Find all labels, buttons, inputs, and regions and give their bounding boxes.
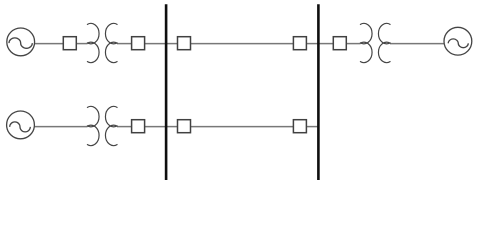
transformer T1 [87, 23, 118, 62]
wire CB4 to busbar B2 [306, 43, 318, 45]
wire T2 to generator G2 [390, 43, 444, 45]
wire CB2 to busbar B1 [144, 43, 166, 45]
breaker CB8 [293, 120, 306, 133]
wire line CB7 to CB8 [190, 126, 294, 128]
generator G3 [7, 111, 35, 139]
wire busbar B1 to breaker CB3 [166, 43, 178, 45]
wire G1 to breaker CB1 [35, 43, 64, 45]
generator G1 [7, 28, 35, 56]
breaker CB4 [293, 37, 306, 50]
generator G2 [444, 27, 472, 55]
wire G3 to transformer T3 [34, 126, 87, 128]
wire busbar B2 to breaker CB5 [318, 43, 333, 45]
wire CB8 to busbar B2 [306, 126, 318, 128]
transformer T2 [360, 23, 391, 62]
wire CB5 to transformer T2 [346, 43, 361, 45]
busbar B1 [165, 4, 168, 180]
breaker CB1 [63, 37, 76, 50]
breaker CB3 [178, 37, 191, 50]
wire line CB3 to CB4 [190, 43, 294, 45]
transformer T3 [87, 106, 118, 145]
wire CB6 to busbar B1 [144, 126, 166, 128]
wire T3 to breaker CB6 [117, 126, 132, 128]
wire T1 to breaker CB2 [117, 43, 132, 45]
breaker CB2 [132, 37, 145, 50]
wire busbar B1 to breaker CB7 [166, 126, 178, 128]
breaker CB6 [132, 120, 145, 133]
breaker CB7 [178, 120, 191, 133]
busbar B2 [317, 4, 320, 180]
breaker CB5 [333, 37, 346, 50]
wire CB1 to transformer T1 [76, 43, 88, 45]
